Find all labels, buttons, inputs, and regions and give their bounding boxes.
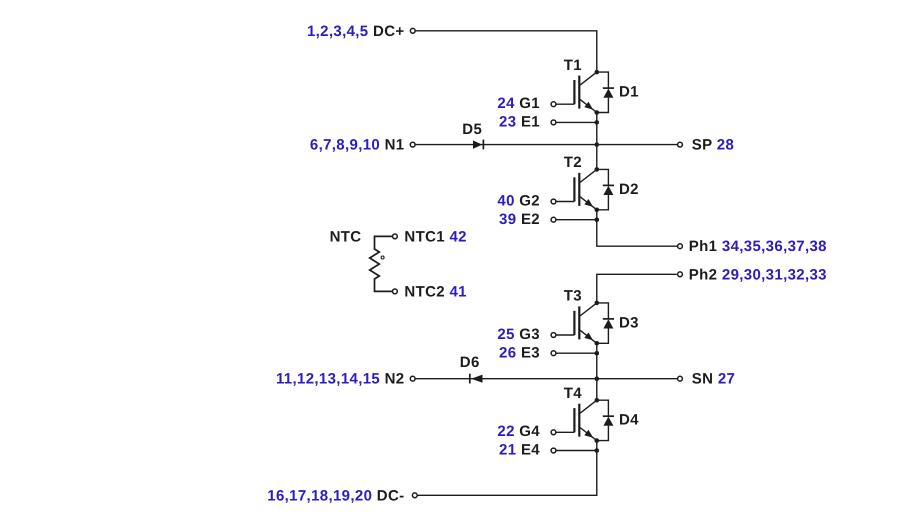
wire emitter lead E3 xyxy=(556,352,597,354)
terminal N1 xyxy=(410,142,415,147)
terminal E1 (pin 23) xyxy=(551,120,556,125)
svg-text:T1: T1 xyxy=(564,57,582,74)
wire gate lead G1 xyxy=(556,103,574,105)
svg-text:SP 28: SP 28 xyxy=(692,137,734,154)
terminal DC- xyxy=(412,493,417,498)
svg-text:23 E1: 23 E1 xyxy=(499,114,540,131)
svg-text:39 E2: 39 E2 xyxy=(499,211,540,228)
svg-text:Ph1 34,35,36,37,38: Ph1 34,35,36,37,38 xyxy=(689,238,827,255)
svg-text:21 E4: 21 E4 xyxy=(499,442,540,459)
transistor T4 xyxy=(574,398,599,443)
terminal DC+ xyxy=(410,28,415,33)
junction E2 on rail xyxy=(595,217,600,222)
terminal G3 (pin 25) xyxy=(551,333,556,338)
wire T1 emitter to T2 collector xyxy=(596,113,598,170)
terminal NTC2 xyxy=(393,289,398,294)
svg-text:D1: D1 xyxy=(619,84,639,101)
diode D2 xyxy=(597,169,614,209)
svg-text:25 G3: 25 G3 xyxy=(497,326,540,343)
thermistor NTC xyxy=(370,236,393,291)
diode D6 xyxy=(470,374,483,384)
wire gate lead G3 xyxy=(556,334,574,336)
junction E1 on rail xyxy=(595,120,600,125)
terminal NTC1 xyxy=(393,234,398,239)
terminal G4 (pin 22) xyxy=(551,430,556,435)
transistor T2 xyxy=(574,167,599,212)
svg-text:24 G1: 24 G1 xyxy=(497,95,540,112)
transistor T1 xyxy=(574,70,599,115)
svg-text:6,7,8,9,10 N1: 6,7,8,9,10 N1 xyxy=(310,137,405,154)
wire T4 emitter to DC- xyxy=(417,441,597,496)
diode D4 xyxy=(597,400,614,440)
terminal SP xyxy=(678,142,683,147)
wire DC+ to T1 collector xyxy=(415,31,597,72)
wire gate lead G4 xyxy=(556,431,574,433)
diode D1 xyxy=(597,72,614,112)
junction N2 on rail xyxy=(595,376,600,381)
terminal SN xyxy=(678,376,683,381)
svg-text:Ph2 29,30,31,32,33: Ph2 29,30,31,32,33 xyxy=(689,266,827,283)
terminal Ph2 xyxy=(678,272,683,277)
svg-text:40 G2: 40 G2 xyxy=(497,192,540,209)
diode D5 xyxy=(473,140,483,150)
svg-text:D3: D3 xyxy=(619,314,639,331)
svg-text:NTC2 41: NTC2 41 xyxy=(404,283,466,300)
svg-text:22 G4: 22 G4 xyxy=(497,423,540,440)
wire emitter lead E4 xyxy=(556,450,597,452)
svg-text:D6: D6 xyxy=(460,354,480,371)
junction N1 on rail xyxy=(595,142,600,147)
svg-text:SN 27: SN 27 xyxy=(692,371,735,388)
svg-text:26 E3: 26 E3 xyxy=(499,344,540,361)
terminal E3 (pin 26) xyxy=(551,351,556,356)
wire Ph2 to T3 collector xyxy=(597,274,677,303)
wire N1 to SP xyxy=(415,144,677,146)
svg-text:T3: T3 xyxy=(564,288,582,305)
terminal N2 xyxy=(410,376,415,381)
junction E3 on rail xyxy=(595,351,600,356)
wire T3 emitter to T4 collector xyxy=(596,343,598,400)
svg-text:11,12,13,14,15 N2: 11,12,13,14,15 N2 xyxy=(276,371,405,388)
svg-text:D2: D2 xyxy=(619,181,639,198)
terminal E4 (pin 21) xyxy=(551,448,556,453)
transistor T3 xyxy=(574,301,599,346)
terminal Ph1 xyxy=(678,244,683,249)
svg-text:D4: D4 xyxy=(619,412,639,429)
svg-text:16,17,18,19,20 DC-: 16,17,18,19,20 DC- xyxy=(267,487,404,504)
wire emitter lead E1 xyxy=(556,121,597,123)
terminal G1 (pin 24) xyxy=(551,102,556,107)
svg-text:T4: T4 xyxy=(564,385,583,402)
wire emitter lead E2 xyxy=(556,219,597,221)
wire T2 emitter to Ph1 xyxy=(597,210,678,246)
svg-text:NTC: NTC xyxy=(330,228,362,245)
terminal E2 (pin 39) xyxy=(551,217,556,222)
diode D3 xyxy=(597,303,614,343)
wire N2 to SN xyxy=(415,378,677,380)
svg-text:D5: D5 xyxy=(462,121,482,138)
junction E4 on rail xyxy=(595,448,600,453)
wire gate lead G2 xyxy=(556,201,574,203)
svg-text:NTC1 42: NTC1 42 xyxy=(404,228,466,245)
svg-text:T2: T2 xyxy=(564,154,582,171)
terminal G2 (pin 40) xyxy=(551,199,556,204)
svg-text:1,2,3,4,5 DC+: 1,2,3,4,5 DC+ xyxy=(307,23,405,40)
